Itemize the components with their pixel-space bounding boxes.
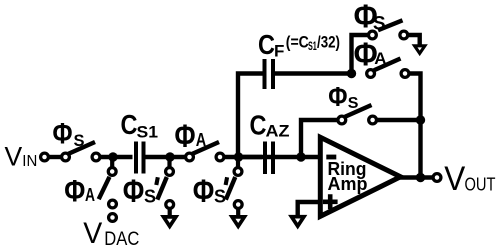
junction F <box>347 69 356 78</box>
label CF value annotation <box>286 34 340 53</box>
ground left PHI_S' <box>164 207 176 226</box>
wire node A down <box>110 157 114 168</box>
switch PHI_S' right (summing node reset) <box>226 168 242 209</box>
svg-text:S1: S1 <box>137 122 159 141</box>
label VDAC <box>83 217 139 250</box>
label PHI_A series <box>175 118 207 154</box>
svg-text:A: A <box>196 129 207 150</box>
switch PHI_A feedback (CF to output) <box>367 59 409 78</box>
label PHI_S input <box>53 117 85 150</box>
svg-text:S: S <box>74 132 85 150</box>
svg-text:C: C <box>258 29 275 60</box>
svg-text:DAC: DAC <box>104 228 139 250</box>
wire switch to node A <box>100 155 133 159</box>
svg-text:(=C: (=C <box>286 34 309 52</box>
wire amp output <box>400 175 434 179</box>
switch PHI_A series (amplification switch) <box>186 142 224 161</box>
output node junction <box>416 173 425 182</box>
node B junction <box>165 152 174 161</box>
wire junction F up to PHI_S reset branch <box>352 35 369 74</box>
terminal VOUT <box>433 174 441 182</box>
svg-text:Φ: Φ <box>64 173 85 209</box>
switch PHI_A to VDAC <box>99 168 117 208</box>
switch PHI_S input (series sampling switch) <box>62 142 100 161</box>
wire CF to junction F <box>275 71 354 75</box>
svg-text:A: A <box>374 49 386 68</box>
label VOUT <box>444 160 495 198</box>
svg-text:Φ: Φ <box>193 173 215 209</box>
switch PHI_S' left (bottom plate reset) <box>157 168 173 209</box>
wire node C up to PHI_S autozero branch <box>301 120 338 157</box>
ground right PHI_S' <box>232 207 244 226</box>
svg-text:V: V <box>83 217 102 250</box>
wire summing node to amp input <box>238 155 318 159</box>
label CAZ <box>250 110 290 141</box>
svg-text:IN: IN <box>22 153 37 170</box>
wire PHI_A to summing node <box>224 155 263 159</box>
label PHI_S autozero <box>328 81 359 112</box>
wire PHI_S autozero to output vertical <box>376 118 421 122</box>
svg-text:C: C <box>121 109 138 140</box>
node A junction <box>108 152 117 161</box>
label PHI_S reset <box>354 0 386 35</box>
svg-text:F: F <box>274 42 284 61</box>
capacitor CAZ <box>265 142 273 175</box>
wire VIN to switch PHI_S input <box>48 155 62 159</box>
label PHI_S' left <box>123 173 158 209</box>
svg-text:S: S <box>348 95 359 112</box>
svg-text:V: V <box>5 142 23 172</box>
ground amp positive input <box>292 217 304 226</box>
wire CS1 to node B <box>146 155 187 159</box>
svg-text:Φ: Φ <box>175 118 196 154</box>
svg-text:A: A <box>85 185 95 205</box>
wire summing node down <box>236 157 240 168</box>
svg-text:OUT: OUT <box>465 174 496 195</box>
terminal VDAC <box>109 214 117 222</box>
svg-text:S: S <box>144 187 156 207</box>
svg-text:C: C <box>250 110 267 141</box>
ground top right <box>415 46 425 54</box>
svg-text:Amp: Amp <box>328 173 368 194</box>
svg-text:Φ: Φ <box>328 81 347 112</box>
svg-text:AZ: AZ <box>266 122 290 141</box>
junction autozero-output <box>416 115 425 124</box>
wire PHI_S reset to ground <box>409 35 420 45</box>
label PHI_A (VDAC switch) <box>64 173 95 209</box>
switch PHI_S reset (CF reset to ground) <box>369 20 408 39</box>
label VIN <box>5 142 38 172</box>
svg-text:/32): /32) <box>317 34 340 52</box>
capacitor CS1 <box>136 142 144 174</box>
op-amp U1 Ring Amp <box>320 137 400 216</box>
svg-text:Φ: Φ <box>123 173 145 209</box>
svg-text:V: V <box>444 160 465 198</box>
svg-text:Φ: Φ <box>53 117 73 150</box>
label CS1 <box>121 109 159 142</box>
terminal VIN <box>41 153 49 161</box>
wire feedback vertical left (summing node up to CF) <box>238 74 263 158</box>
wire amp noninverting input to ground <box>298 202 320 216</box>
switch PHI_S autozero (amp input to output) <box>338 105 377 124</box>
label CF <box>258 29 284 61</box>
capacitor CF <box>265 59 274 89</box>
wire PHI_A feedback to output vertical <box>409 74 421 178</box>
node C junction (amp inverting input) <box>296 152 305 161</box>
summing node junction <box>234 152 243 161</box>
svg-text:S: S <box>214 187 226 207</box>
svg-text:S1: S1 <box>308 41 317 53</box>
svg-text:S: S <box>373 13 386 34</box>
label PHI_A feedback <box>354 36 387 73</box>
label PHI_S' right <box>193 173 227 209</box>
wire node B down <box>167 157 171 168</box>
